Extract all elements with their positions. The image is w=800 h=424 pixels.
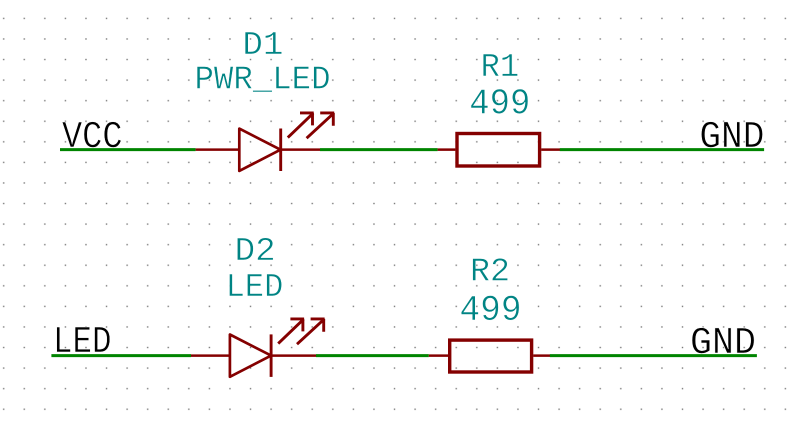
svg-text:LED: LED	[53, 321, 112, 364]
pin 2 (cathode) of D1	[281, 148, 320, 151]
svg-text:GND: GND	[690, 322, 756, 365]
wire row 2 middle (D2 cathode to R2)	[316, 354, 429, 357]
pin 1 of R1	[438, 148, 456, 151]
pin 2 (cathode) of D2	[271, 354, 316, 357]
svg-text:VCC: VCC	[62, 116, 123, 159]
LED D2	[191, 319, 325, 377]
label GND (row 2)	[690, 322, 756, 365]
svg-text:D1: D1	[242, 27, 283, 64]
label VCC	[62, 116, 123, 159]
label R2 (reference)	[470, 254, 510, 291]
cathode bar D1	[279, 129, 282, 172]
svg-text:499: 499	[469, 84, 530, 125]
label 499 (value of R2)	[460, 290, 522, 331]
body rectangle R2	[450, 340, 532, 372]
label R1 (reference)	[481, 49, 520, 86]
cathode bar D2	[270, 334, 273, 377]
LED arrow 2 of D2	[297, 319, 325, 344]
wire GND net (row 2 right)	[550, 354, 757, 357]
resistor R1	[438, 134, 560, 167]
diode triangle D1	[239, 129, 280, 171]
LED arrow 2 of D1	[307, 113, 335, 138]
svg-text:R1: R1	[481, 49, 520, 86]
label D1 (reference)	[242, 27, 283, 64]
svg-text:R2: R2	[470, 254, 510, 291]
pin 2 of R2	[533, 354, 550, 357]
wire LED net (row 2 left)	[51, 354, 191, 357]
diode triangle D2	[230, 335, 271, 377]
wire VCC net (row 1 left)	[60, 148, 196, 151]
pin 1 of R2	[429, 354, 448, 357]
wire GND net (row 1 right)	[560, 148, 764, 151]
label 499 (value of R1)	[469, 84, 530, 125]
label GND (row 1)	[699, 116, 764, 159]
resistor R2	[429, 340, 550, 372]
wire row 1 middle (D1 cathode to R1)	[320, 148, 438, 151]
svg-text:499: 499	[460, 290, 522, 331]
label D2 (reference)	[235, 233, 276, 270]
label LED (value of D2)	[226, 269, 284, 306]
LED D1	[196, 113, 335, 171]
label LED (net label, row 2)	[53, 321, 112, 364]
svg-text:PWR_LED: PWR_LED	[195, 61, 331, 98]
svg-text:LED: LED	[226, 269, 284, 306]
LED arrow 1 of D2	[278, 319, 304, 344]
body rectangle R1	[457, 134, 540, 167]
svg-text:D2: D2	[235, 233, 276, 270]
label PWR_LED (value)	[195, 61, 331, 98]
pin 2 of R1	[541, 148, 560, 151]
pin 1 (anode) of D1	[196, 148, 240, 151]
svg-text:GND: GND	[699, 116, 764, 159]
LED arrow 1 of D1	[288, 113, 314, 138]
pin 1 (anode) of D2	[191, 354, 230, 357]
